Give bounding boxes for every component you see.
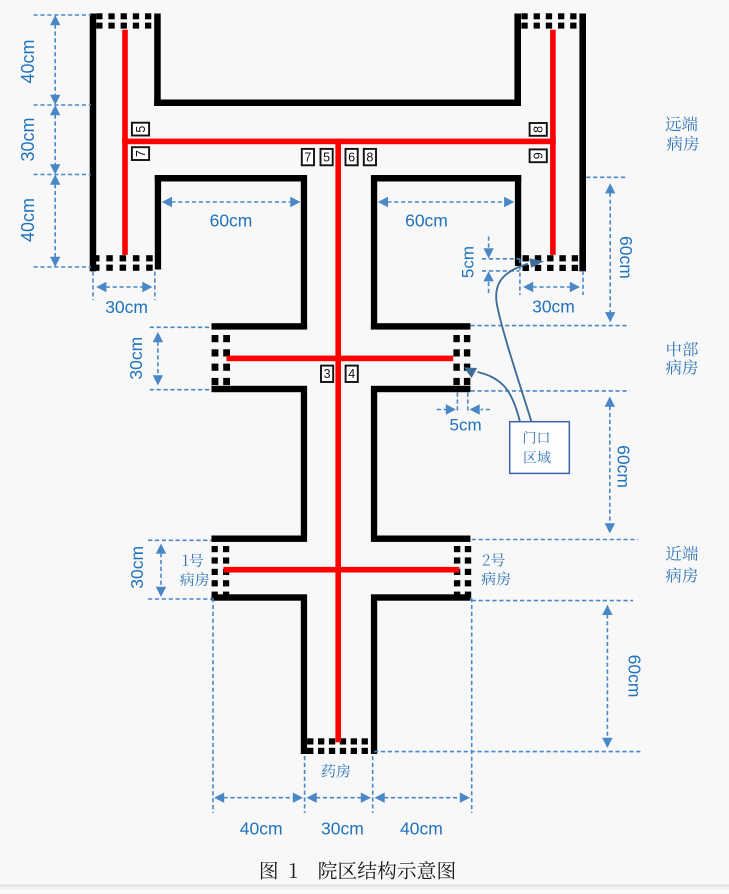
node marker 8 rotated (far-right corridor) — [530, 123, 547, 136]
label middle ward line2 — [666, 359, 698, 374]
door: far-left corridor top doorway — [96, 13, 151, 28]
svg-text:30cm: 30cm — [321, 818, 364, 838]
label ward no.1 line1 — [183, 553, 203, 567]
svg-text:30cm: 30cm — [126, 337, 146, 380]
svg-text:30cm: 30cm — [532, 297, 575, 317]
wall: far-right corridor right wall — [579, 14, 586, 272]
door: pharmacy bottom doorway — [307, 738, 368, 754]
label ward no.2 line2 — [481, 571, 510, 585]
node marker 6 (far corridor) — [346, 149, 358, 165]
door: near corridor left doorway — [212, 546, 230, 598]
dimension arrow 5cm door height bottom part — [488, 281, 490, 293]
dimension guide x=93 — [92, 272, 94, 301]
wire: red path far-left corridor vertical — [122, 30, 128, 255]
dimension guide y=599 near-left — [148, 598, 212, 600]
svg-text:40cm: 40cm — [400, 818, 443, 838]
wire: red path far corridor horizontal — [122, 139, 556, 145]
label middle ward line1 — [667, 341, 698, 356]
node marker 5 (far corridor) — [321, 149, 333, 165]
node marker 7 rotated (far-left corridor) — [132, 147, 149, 160]
label pharmacy — [322, 764, 351, 778]
dimension guide y=752 right — [374, 751, 643, 753]
door: middle corridor right doorway — [453, 335, 470, 385]
svg-text:3: 3 — [324, 367, 331, 381]
door: far-left corridor bottom doorway — [93, 255, 153, 271]
svg-text:5cm: 5cm — [458, 246, 477, 278]
svg-text:40cm: 40cm — [18, 198, 38, 242]
svg-text:5: 5 — [134, 126, 148, 133]
dimension arrow 60cm right room — [378, 197, 388, 207]
dimension arrow 40cm bottom right — [375, 793, 385, 803]
wall: middle corridor bottom wall left segment — [212, 386, 308, 392]
callout curve to middle corridor right doorway — [478, 372, 521, 422]
dimension arrow 30cm below far-right corridor — [523, 282, 533, 292]
svg-text:40cm: 40cm — [240, 818, 283, 838]
svg-text:60cm: 60cm — [613, 445, 633, 488]
svg-text:4: 4 — [348, 367, 355, 381]
dimension arrow 60cm right middle — [605, 397, 615, 407]
dimension guide y=601 right — [472, 600, 633, 602]
wall: far corridor bottom wall left segment — [155, 175, 307, 182]
wall: main corridor left wall lower segment — [301, 601, 307, 755]
svg-text:5: 5 — [323, 151, 330, 165]
door: near corridor right doorway — [454, 546, 471, 598]
label far ward line2 — [667, 136, 699, 151]
dimension guide x=457 — [456, 393, 458, 414]
wall: main corridor left wall middle segment — [301, 392, 307, 536]
dimension arrow 30cm near corridor — [156, 544, 166, 554]
svg-text:6: 6 — [348, 151, 355, 165]
node marker 9 rotated (far-right corridor) — [530, 149, 547, 162]
dimension arrow 60cm right lower — [602, 605, 612, 615]
dimension arrow 30cm below far-left corridor — [96, 282, 106, 292]
callout curve to far-right corridor doorway — [496, 264, 531, 422]
label ward no.1 line2 — [180, 572, 209, 586]
svg-text:60cm: 60cm — [405, 211, 448, 231]
dimension guide left y=267 — [34, 266, 92, 268]
dimension guide x=468 — [467, 393, 469, 414]
dimension arrow 40cm lower-left — [50, 175, 60, 185]
svg-text:7: 7 — [304, 151, 311, 165]
svg-text:40cm: 40cm — [18, 39, 38, 83]
wall: near corridor top wall left segment — [212, 536, 308, 542]
dimension guide x=213 bottom — [212, 598, 214, 813]
svg-text:60cm: 60cm — [624, 655, 644, 698]
svg-text:30cm: 30cm — [18, 117, 38, 161]
wall: far-left corridor left wall — [90, 14, 97, 272]
svg-text:8: 8 — [366, 151, 373, 165]
dimension guide y=327 middle-left — [150, 326, 212, 328]
wall: main corridor right wall upper segment — [371, 175, 377, 330]
dimension arrow 30cm left — [50, 105, 60, 115]
wall: middle corridor top wall right segment — [371, 323, 471, 329]
node marker 3 (middle corridor) — [321, 366, 333, 382]
node marker 7 (far corridor) — [302, 149, 314, 165]
dimension arrow 30cm middle corridor — [153, 332, 163, 342]
caption figure 1 — [261, 861, 455, 879]
dimension guide y=540 near-left — [148, 539, 212, 541]
dimension guide y=326 right — [471, 325, 630, 327]
svg-text:5cm: 5cm — [450, 415, 482, 434]
wall: far-right corridor left wall lower — [515, 175, 521, 266]
svg-text:60cm: 60cm — [210, 210, 253, 230]
page bottom rule — [0, 885, 729, 887]
dimension guide y=259 door top — [482, 258, 520, 260]
node marker 8 (far corridor) — [364, 149, 376, 165]
wire: red path middle corridor horizontal — [227, 356, 454, 362]
door: far-right corridor bottom doorway — [523, 255, 579, 271]
dimension guide y=271 door bottom — [482, 270, 520, 272]
dimension guide left y=105 — [34, 104, 92, 106]
wire: red path far-right corridor vertical — [550, 30, 556, 255]
wall: main corridor right wall middle segment — [371, 392, 377, 536]
label door-area line2 — [524, 451, 550, 464]
wall: far-right corridor left wall upper — [514, 14, 521, 107]
svg-text:30cm: 30cm — [127, 546, 147, 589]
dimension arrow 60cm right upper — [605, 183, 615, 193]
dimension guide y=391 right — [471, 390, 630, 392]
wall: main corridor right wall lower segment — [371, 601, 377, 755]
label near ward line1 — [666, 546, 698, 561]
dimension arrow 5cm door width left part — [437, 409, 446, 411]
dimension guide y=177 right — [586, 176, 625, 178]
dimension guide x=155 — [154, 272, 156, 301]
wire: red path main corridor vertical — [335, 139, 341, 743]
dimension arrow 40cm top-left — [50, 15, 60, 25]
wall: near corridor bottom wall left segment — [212, 594, 308, 600]
label ward no.2 line1 — [483, 553, 505, 567]
wall: middle corridor bottom wall right segment — [371, 386, 471, 392]
svg-text:30cm: 30cm — [105, 297, 148, 317]
svg-text:7: 7 — [134, 150, 148, 157]
node marker 5 rotated (far-left corridor) — [132, 123, 149, 136]
dimension guide x=373 bottom — [372, 756, 374, 813]
page area below rule — [0, 886, 729, 889]
dimension guide y=539 right — [472, 539, 638, 541]
wall: far corridor top wall — [154, 100, 521, 107]
label near ward line2 — [666, 567, 698, 582]
wall: far-left corridor right wall upper — [154, 14, 161, 107]
wall: near corridor bottom wall right segment — [371, 594, 471, 600]
dimension guide x=583 — [582, 271, 584, 295]
wall: far corridor bottom wall right segment — [371, 175, 521, 182]
node marker 4 (middle corridor) — [346, 366, 358, 382]
dimension guide left y=174 — [34, 174, 92, 176]
dimension guide x=305 bottom — [304, 756, 306, 813]
dimension arrow 60cm left room — [162, 197, 172, 207]
dimension guide top-left y=15 — [34, 14, 92, 16]
door: middle corridor left doorway — [212, 335, 230, 385]
dimension guide x=520 — [519, 259, 521, 295]
label far ward line1 — [666, 116, 698, 131]
dimension guide x=472 bottom — [471, 598, 473, 813]
callout box door area (door-area label box) — [510, 422, 570, 474]
wall: middle corridor top wall left segment — [212, 323, 308, 329]
wall: main corridor left wall upper segment — [301, 175, 307, 330]
wire: red path near corridor horizontal — [224, 567, 460, 573]
wall: near corridor top wall right segment — [371, 536, 471, 542]
svg-text:8: 8 — [532, 126, 546, 133]
door: far-right corridor top doorway — [521, 13, 576, 28]
dimension arrow 40cm bottom left — [214, 793, 224, 803]
wall: far-left corridor right wall lower — [155, 175, 161, 270]
svg-text:9: 9 — [532, 152, 546, 159]
label door-area line1 — [524, 431, 549, 444]
dimension guide y=390 middle-left — [150, 389, 212, 391]
dimension arrow 5cm door height top part — [488, 237, 490, 250]
dimension arrow 5cm door width right part — [481, 409, 491, 411]
dimension arrow 30cm bottom center — [307, 793, 317, 803]
svg-text:60cm: 60cm — [616, 236, 636, 279]
